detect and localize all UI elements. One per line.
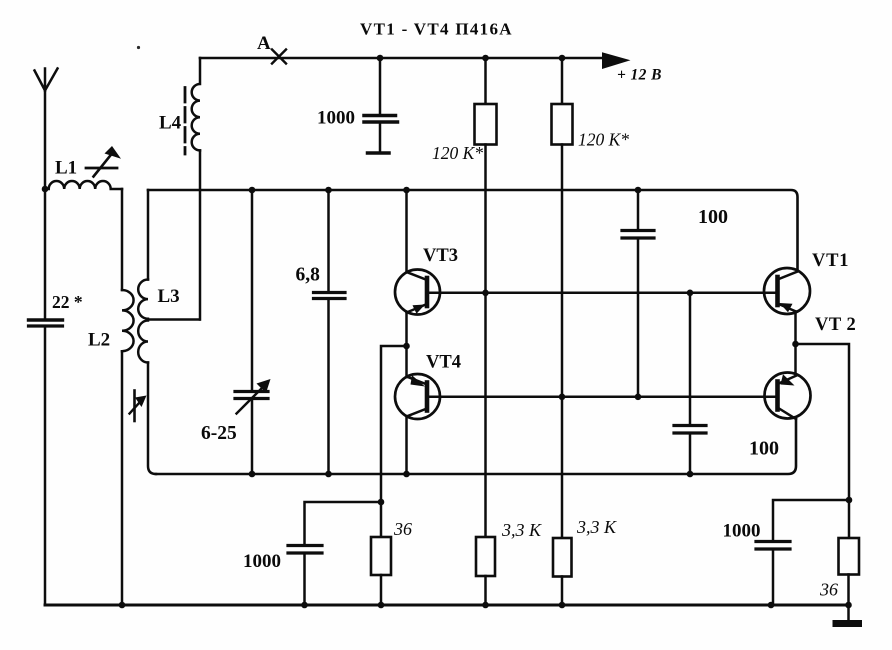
core adjust arrow for L2/L3: [133, 391, 136, 422]
svg-text:36: 36: [819, 580, 838, 600]
svg-text:L2: L2: [88, 330, 110, 351]
wire: cont. down through crossings to 3.3K #1: [484, 293, 487, 537]
svg-text:L4: L4: [159, 113, 182, 134]
resistor R 120K* #1 body: [475, 104, 497, 145]
svg-text:1000: 1000: [243, 551, 281, 572]
svg-text:120 К*: 120 К*: [432, 143, 483, 163]
svg-text:22 *: 22 *: [52, 292, 83, 312]
svg-text:VT3: VT3: [423, 246, 458, 266]
svg-text:1000: 1000: [317, 108, 355, 129]
resistor R 120K* #2 lead from rail: [561, 58, 564, 104]
transistor VT4 circle: [395, 374, 440, 419]
VT2 emitter diagonal with arrow (top): [778, 376, 797, 385]
inductor L1 (4 humps): [45, 181, 122, 189]
wire: C100#1 bottom to VT4 base line: [637, 240, 640, 397]
wire: L3 bottom to inner bus corner: [148, 363, 156, 475]
wire: inner top bus: [148, 190, 798, 271]
node A cross mark: [272, 50, 286, 64]
inductor L2 (3 humps, bulge right): [122, 290, 134, 351]
svg-text:36: 36: [393, 519, 412, 539]
wire: VT4 bottom to inner bottom bus: [405, 417, 408, 475]
VT3 collector diagonal (top): [407, 272, 428, 280]
svg-text:1000: 1000: [723, 521, 761, 542]
capacitor C 6,8 top lead: [327, 190, 330, 291]
wire: R3.3K#1 to ground bus: [484, 576, 487, 605]
node dots on inner top bus: [249, 187, 256, 194]
antenna WA1: [35, 69, 58, 91]
wire: VT3 base line to VT1 base: [427, 292, 778, 295]
node on branch at 1000 tap: [378, 499, 385, 506]
svg-text:VT1: VT1: [812, 251, 849, 271]
C 6-25 plates: [235, 390, 268, 393]
VT1 collector diagonal (top): [778, 272, 798, 280]
wire: emitter node branch right: [796, 344, 850, 538]
wire: +12V top rail: [200, 57, 604, 60]
+12V arrow head: [602, 52, 631, 69]
wire: ground bus: [45, 604, 849, 607]
resistor R 120K* #2 body: [552, 104, 573, 145]
node dots on ground bus: [119, 602, 126, 609]
node: ground junction: [845, 602, 852, 609]
inductor L3 lower (2 humps, bulge left): [138, 321, 148, 363]
VT4 collector diagonal (bottom): [407, 409, 428, 417]
resistor R 36 #1 body: [371, 537, 391, 575]
wire: C6,8 bottom lead: [327, 300, 330, 474]
capacitor C 1000 bottom-left plates: [288, 544, 322, 547]
C1000 end bar: [368, 151, 390, 155]
wire: VT1 emitter down to node: [794, 312, 797, 345]
capacitor C 100 #2 top lead: [689, 293, 692, 424]
VT1 emitter diagonal with arrow (bottom): [778, 304, 797, 312]
VT4 base bar: [425, 383, 430, 411]
wire: R36#1 to ground bus: [380, 575, 383, 605]
wire: VT3 emitter to common node: [405, 313, 408, 347]
C 6,8 plates: [314, 291, 346, 294]
node: VT3/VT4 emitters: [403, 343, 410, 350]
wire: node to VT2 top: [794, 344, 797, 375]
VT2 collector diagonal (bottom): [778, 408, 797, 420]
wire: VT3 collector to top bus: [405, 190, 408, 272]
wire: L3 tap to L4 bottom: [148, 318, 200, 321]
wire: R120K#1 down to VT3 base line: [484, 145, 487, 294]
svg-text:VT1 - VT4 П416А: VT1 - VT4 П416А: [360, 20, 513, 39]
capacitor C 100 #1 lead: [637, 190, 640, 229]
svg-text:3,3 К: 3,3 К: [576, 517, 617, 537]
node dot on rail at C1000: [377, 55, 384, 62]
wire: R3.3K#2 to ground bus: [561, 577, 564, 606]
C 1000 top plates: [364, 114, 396, 118]
VT3 emitter diagonal with arrow (bottom): [407, 304, 428, 313]
VT2 base bar: [775, 382, 780, 410]
wire: L2 bottom to ground bus: [121, 351, 124, 605]
resistor R 36 #2 body: [839, 538, 860, 575]
VT4 emitter diagonal with arrow (top): [407, 377, 428, 385]
svg-text:120 К*: 120 К*: [578, 130, 629, 150]
svg-text:3,3 К: 3,3 К: [501, 520, 542, 540]
C 100 #1 plates: [622, 229, 654, 232]
svg-text:6-25: 6-25: [201, 423, 237, 444]
wire: L4 bottom to L3 tap: [199, 151, 202, 320]
wire: C1000 bottom stub: [379, 124, 382, 152]
wire: C1000 BL to ground bus: [303, 555, 306, 606]
wire: emitters node to VT4 top: [405, 346, 408, 377]
node on branch at 1000 tap right: [846, 497, 853, 504]
L4 core dashed line: [184, 88, 187, 155]
wire: L1 to L2 top: [121, 189, 124, 290]
wire: cap 22* to ground bus: [44, 328, 47, 605]
wire: C1000 BR to ground bus: [772, 551, 775, 606]
svg-text:L1: L1: [55, 158, 77, 179]
node: antenna/L1 junction: [42, 186, 49, 193]
VT1 base bar: [775, 277, 780, 305]
svg-text:100: 100: [698, 206, 728, 228]
wire: antenna node down to cap 22*: [44, 189, 47, 318]
ground symbol: [847, 605, 850, 620]
svg-text:A: A: [257, 33, 271, 54]
capacitor C 1000 bottom-right plates: [756, 540, 790, 543]
wire: branch to C1000 bottom-left: [305, 502, 382, 544]
svg-text:L3: L3: [158, 286, 180, 307]
svg-text:100: 100: [749, 438, 779, 460]
svg-text:VT4: VT4: [426, 353, 461, 373]
transistor VT2 circle: [765, 373, 811, 419]
wire: R120K#2 down to VT4 base line and 3.3K #2: [561, 145, 564, 539]
L1 adjuster arrow: [86, 167, 117, 170]
capacitor C 22* plates: [29, 318, 63, 321]
wire: inner bottom bus: [156, 420, 796, 475]
svg-text:VT 2: VT 2: [815, 315, 856, 335]
node: VT1/VT2 junction: [792, 341, 799, 348]
C 6-25 arrow: [237, 389, 262, 414]
resistor R 3,3K #1 body: [476, 537, 495, 576]
wire: L3 top lead: [147, 190, 150, 280]
node dots on inner bottom bus: [249, 471, 256, 478]
wire: C6-25 bottom lead: [251, 400, 254, 474]
resistor R 3,3K #2 body: [553, 538, 572, 577]
wire: C100#2 to inner bottom bus: [689, 435, 692, 475]
svg-text:6,8: 6,8: [296, 265, 321, 286]
inductor L3 upper (2 humps, bulge left): [138, 280, 148, 319]
wire: emitter branch to R36 #1: [381, 346, 407, 537]
C 100 #2 plates: [674, 424, 706, 427]
transistor VT1 circle: [764, 268, 810, 314]
VT3 base bar: [425, 278, 430, 306]
wire: antenna down to L1 node: [44, 91, 47, 190]
svg-text:+ 12 В: + 12 В: [617, 67, 662, 84]
wire: VT4 base line to VT2 base: [427, 396, 778, 399]
wire: R36#2 to ground bus: [847, 575, 850, 606]
wire: branch to C1000 bottom-right: [773, 500, 849, 540]
stray scan dot: [137, 46, 140, 49]
inductor L4 (4 humps, bulge left): [192, 58, 200, 150]
capacitor C 1000 (top) lead: [379, 58, 382, 114]
resistor R 120K* #1 lead from rail: [484, 58, 487, 104]
variable capacitor C 6-25 top lead: [251, 190, 254, 390]
transistor VT3 circle: [395, 270, 440, 315]
